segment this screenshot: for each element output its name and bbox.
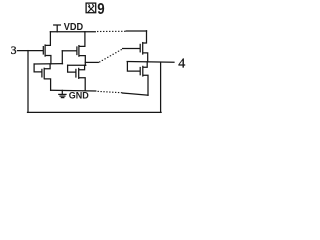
wire stage3 diode loop: [127, 62, 139, 72]
wire stage2 gate riser: [61, 51, 63, 64]
transistor Q3 upper-middle: [77, 32, 85, 66]
title 図9: [86, 3, 96, 13]
wire GND rail dotted continuation: [98, 91, 123, 93]
wire VDD rail right: [126, 30, 146, 32]
wire feedback left vertical: [27, 51, 29, 113]
transistor Q6 lower-right (diode-connected): [140, 62, 148, 95]
transistor Q4 lower-middle (diode-connected): [76, 65, 85, 90]
wire GND rail: [51, 89, 96, 92]
wire VDD rail left: [50, 31, 95, 33]
svg-text:GND: GND: [69, 91, 90, 101]
wire stage1 diode loop: [34, 64, 41, 72]
wire stage3 gate: [123, 48, 140, 50]
ground: [59, 90, 66, 97]
transistor Q1 upper-left: [43, 32, 51, 64]
transistor Q5 upper-right: [140, 31, 148, 62]
wire feedback bottom: [28, 111, 162, 113]
VDD power symbol: [54, 25, 61, 32]
wire VDD rail dotted continuation: [97, 31, 125, 32]
wire stage2 gate: [62, 50, 76, 52]
wire feedback right vertical: [160, 62, 162, 112]
transistor Q2 lower-left (diode-connected): [42, 64, 51, 90]
wire GND rail right sloped: [123, 93, 148, 95]
svg-text:9: 9: [97, 1, 104, 18]
wire stage2 diode loop: [68, 65, 76, 72]
node B (stage2 output): [68, 64, 86, 66]
node A (stage1 output): [34, 63, 62, 65]
wire dotted diagonal continuation: [99, 49, 122, 62]
wire stage2 branch to dots: [85, 61, 98, 63]
wire input 3: [18, 50, 43, 52]
node 4 line: [127, 61, 174, 64]
svg-text:4: 4: [178, 56, 185, 71]
svg-text:3: 3: [11, 45, 17, 57]
